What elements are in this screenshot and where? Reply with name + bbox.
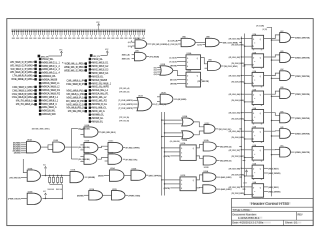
wire Q to U9A <box>201 58 208 64</box>
input pin MXC_WL8_C <box>39 103 57 106</box>
junction <box>241 56 242 57</box>
output pin WD_WL3_L_P_MX1 <box>11 68 37 71</box>
wire gate enable <box>272 77 280 79</box>
wire <box>98 158 108 160</box>
termination network RN25 <box>115 29 119 39</box>
termination network RN9 <box>46 29 50 39</box>
output pin WDE_WL_C_PD1 <box>64 69 87 72</box>
input pin MXD_WLC_L_4 <box>39 72 61 75</box>
and-gate U8B <box>202 36 219 47</box>
net label WL_WD_B <box>11 177 21 178</box>
svg-text:(L_CLK_B): (L_CLK_B) <box>168 44 178 46</box>
input pin WL_PU <box>90 54 93 57</box>
svg-text:(W_CLK_EN1): (W_CLK_EN1) <box>231 45 244 47</box>
svg-text:(4L): (4L) <box>244 182 247 184</box>
bus wire W_D <box>240 37 242 187</box>
wire <box>243 188 245 190</box>
svg-text:REV: REV <box>298 214 303 217</box>
termination network RN12 <box>59 29 63 39</box>
svg-text:(W_CLK_EN4): (W_CLK_EN4) <box>231 100 244 102</box>
termination network RN2 <box>16 29 20 39</box>
output pin CWL_WL8_R_P <box>66 83 87 86</box>
wire gate enable <box>272 59 280 61</box>
and-gate U21A <box>70 169 83 183</box>
net label (W_CLK_EN7) <box>233 155 244 156</box>
output pin RDE_WDE_P_MX1 <box>11 78 36 81</box>
net label W_ENB <box>178 99 186 100</box>
svg-text:(TP_WL_A): (TP_WL_A) <box>119 87 130 90</box>
svg-text:(U_B): (U_B) <box>263 29 268 31</box>
svg-text:(H05_DRVB): (H05_DRVB) <box>268 192 280 194</box>
svg-text:Sheet: 1/1: Sheet: 1/1 <box>285 221 298 225</box>
svg-text:U13B: U13B <box>182 140 187 142</box>
or-gate U12A <box>133 95 152 111</box>
svg-text:(Q1B): (Q1B) <box>197 45 202 47</box>
net label (CMD_DRV6B) <box>295 133 308 134</box>
net label P_WD_OFFB <box>126 147 139 148</box>
wire Q output <box>264 91 280 94</box>
junction <box>164 123 165 124</box>
resistor R41 <box>49 175 51 185</box>
termination network RN27 <box>124 29 128 39</box>
svg-text:(H04_DRVB): (H04_DRVB) <box>268 173 280 175</box>
wire clock input <box>245 119 253 121</box>
junction <box>241 146 242 147</box>
wire <box>162 147 180 149</box>
svg-text:(W_CLK_EN3): (W_CLK_EN3) <box>231 82 244 84</box>
wire feedback <box>23 159 27 173</box>
net label (W_CLK_EN6) <box>233 137 244 138</box>
output pin WD_WL3_C_P_MX2 <box>10 64 37 67</box>
output pin WD_WL3_R_P_MX1 <box>10 71 37 74</box>
svg-text:(S4): (S4) <box>154 74 158 76</box>
net label T_CLK <box>169 61 176 62</box>
junction <box>271 135 272 136</box>
termination network RN15 <box>72 29 76 39</box>
termination network RN5 <box>29 29 33 39</box>
wire <box>216 188 221 190</box>
flip-flop U2A <box>252 33 264 50</box>
input pin P2U2_GL <box>89 58 104 61</box>
input pin MXC_GL_WL8_1 <box>89 82 112 85</box>
wire <box>219 42 222 44</box>
net label 4L <box>244 182 248 183</box>
net label S1 <box>153 67 157 68</box>
net label RSTB <box>164 187 170 188</box>
wire <box>243 160 245 162</box>
svg-text:(W_CLK_G9): (W_CLK_G9) <box>229 187 241 189</box>
net label T_CLK_G <box>156 104 166 105</box>
svg-text:(W_WL_SEL_MX1): (W_WL_SEL_MX1) <box>32 129 50 131</box>
svg-text:(L3): (L3) <box>128 46 131 48</box>
svg-text:(H04_BLK): (H04_BLK) <box>268 168 279 170</box>
wire <box>194 122 204 127</box>
input pin MXCA_WL_L1 <box>89 89 109 92</box>
output pin LTH_WLR_P_MX1 <box>12 75 36 78</box>
junction <box>164 151 165 152</box>
svg-text:(CMD_DRV7B): (CMD_DRV7B) <box>295 152 310 154</box>
net label U_B <box>263 29 268 30</box>
svg-text:(ND8B): (ND8B) <box>77 195 84 197</box>
output pin MXC_WL8_C_1 <box>66 103 87 106</box>
flip-flop U6A <box>252 181 264 198</box>
wire <box>291 57 295 59</box>
wire <box>162 179 180 181</box>
input pin MXL_W8_GL <box>89 107 108 110</box>
input pin MXCW_8_GL <box>89 103 108 106</box>
net label L_CLK_B <box>168 44 178 45</box>
svg-text:(S3): (S3) <box>154 72 158 74</box>
net label BCN2B <box>13 146 20 147</box>
svg-text:(H01_DRV): (H01_DRV) <box>221 177 232 179</box>
junction <box>244 120 245 121</box>
svg-text:(W_CLK_G1): (W_CLK_G1) <box>229 39 241 41</box>
net label T_CLK_GRP3 <box>119 107 133 108</box>
and-gate U2C <box>280 31 291 43</box>
net label H05_DRVB <box>268 191 279 192</box>
title text Sheet <box>285 222 301 224</box>
junction <box>241 75 242 76</box>
svg-text:(WLEB): (WLEB) <box>14 153 21 155</box>
svg-text:(MXC_A): (MXC_A) <box>122 54 130 57</box>
output pin MX_WL8_L_PD <box>66 93 87 96</box>
and-gate U12B <box>157 92 173 104</box>
svg-text:(W_DRV_A): (W_DRV_A) <box>220 146 232 149</box>
or-gate U11B <box>157 64 173 76</box>
net label (CMD_DRV4B) <box>295 93 308 94</box>
input pin MXCA_WL8_L1 <box>39 82 60 85</box>
net label BCN8B <box>13 142 20 143</box>
power flag symbol <box>245 170 247 176</box>
input pin MXC_WL3_G4 <box>89 72 109 75</box>
net label (W_CLK_G2) <box>230 57 240 58</box>
title text Date <box>232 222 271 224</box>
svg-text:(CMD_DRV2B): (CMD_DRV2B) <box>295 58 310 60</box>
value label R44 10K <box>48 189 54 190</box>
input pin MXC_WL_L2 <box>89 96 107 99</box>
output pin MX_WL8_PD_2 <box>66 107 87 110</box>
vcc symbol <box>60 51 61 53</box>
wire gate enable <box>272 95 280 97</box>
wire D input <box>177 57 186 59</box>
svg-text:(ND8B): (ND8B) <box>88 177 95 179</box>
termination network RN14 <box>68 29 72 39</box>
net label (W_CLK_G1) <box>230 38 240 39</box>
svg-text:(WL_WD_BLK): (WL_WD_BLK) <box>102 132 117 134</box>
svg-text:(TP_GL_A): (TP_GL_A) <box>119 116 129 119</box>
wire <box>152 103 155 105</box>
wire D input <box>241 167 252 169</box>
svg-text:(WL_WD_B): (WL_WD_B) <box>9 177 21 179</box>
wire <box>41 146 49 148</box>
net label WL_CLK_ENB <box>223 42 237 43</box>
output pin MX_TX_WL8_2 <box>16 103 37 106</box>
output pin MXC_WL8_P_1 <box>66 96 87 99</box>
junction <box>45 198 46 199</box>
termination network RN3 <box>20 29 24 39</box>
and-gate U15D <box>80 152 97 164</box>
input pin MXC_WL8_L2 <box>39 99 59 102</box>
wire gate enable <box>272 135 280 137</box>
wire <box>174 98 177 100</box>
termination network RN31 <box>141 29 145 39</box>
net label PWR_OKB <box>128 195 138 196</box>
svg-text:(T_CLK): (T_CLK) <box>169 62 177 64</box>
termination network RN10 <box>50 29 54 39</box>
wire <box>165 183 181 185</box>
output pin MX_TX_WL8_1 <box>16 100 37 103</box>
termination network RN20 <box>94 29 98 39</box>
junction <box>241 38 242 39</box>
input pin MXC3_GL <box>89 75 104 78</box>
wire Q output <box>264 167 268 169</box>
input pin MXD_WLC_L_2 <box>39 65 61 68</box>
input pin MXDA_WLB8 <box>39 79 58 82</box>
net label ND8 <box>98 175 103 176</box>
flip-flop U3A <box>252 70 264 87</box>
svg-text:(W_CLK_G5): (W_CLK_G5) <box>229 113 241 115</box>
output pin CWL_WL8_L_MX2 <box>12 89 37 92</box>
termination network RN6 <box>33 29 37 39</box>
termination network RN4 <box>24 29 28 39</box>
net label H02_DRV <box>221 189 231 190</box>
output pin CWL_WL8_L_P <box>66 79 87 82</box>
input pin MXW8_GL <box>89 114 105 117</box>
wire clock input <box>245 101 253 103</box>
wire <box>146 174 149 176</box>
flip-flop U17A <box>170 141 196 161</box>
net label (W_CLK_G4) <box>230 94 240 95</box>
net label TP_C <box>119 117 129 118</box>
wire <box>196 145 203 148</box>
svg-text:(W_CLK_G3): (W_CLK_G3) <box>229 76 241 78</box>
wire <box>71 158 78 160</box>
wire <box>196 156 203 158</box>
svg-text:(L_CLK_A): (L_CLK_A) <box>168 40 178 43</box>
termination network RN22 <box>102 29 106 39</box>
output pin MXC_WL8_PL1 <box>66 90 87 93</box>
input pin MXCA_WLB8 <box>89 79 108 82</box>
wire D input <box>241 130 252 132</box>
and-gate U20A <box>110 167 125 181</box>
and-gate U3C <box>280 69 291 81</box>
junction <box>244 138 245 139</box>
and-gate U7B <box>132 50 146 61</box>
net label S4 <box>153 74 157 75</box>
svg-text:(CMD_DRV4B): (CMD_DRV4B) <box>295 94 310 96</box>
or-gate U13B <box>182 131 194 142</box>
wire <box>170 187 180 189</box>
and-gate U18B <box>203 156 216 169</box>
wire <box>291 132 295 134</box>
wire <box>147 43 152 45</box>
net label H04_BLK <box>268 168 278 169</box>
net label H04_DRVB <box>268 173 279 174</box>
and-gate U2D <box>280 51 291 63</box>
net label MXC_B <box>122 58 129 59</box>
net label (W_CLK_EN5) <box>233 118 244 119</box>
title text Title: HT80x <box>232 209 252 211</box>
wire <box>216 146 219 148</box>
and-gate U5C <box>280 145 291 157</box>
svg-text:(W_CLK_G2): (W_CLK_G2) <box>229 57 241 59</box>
svg-text:(L2): (L2) <box>128 42 131 44</box>
and-gate U4D <box>280 127 291 139</box>
input pin MXD_WLC_L_3 <box>39 68 61 71</box>
svg-text:(W_CLK_EN6): (W_CLK_EN6) <box>231 137 244 139</box>
wire Q output <box>264 35 280 39</box>
net label (W_CLK_EN2) <box>233 63 244 64</box>
svg-text:(T_CLK_GRP2): (T_CLK_GRP2) <box>118 104 133 106</box>
svg-text:(CMD_DRV6B): (CMD_DRV6B) <box>295 134 310 136</box>
and-gate U8A <box>178 36 195 47</box>
junction <box>161 119 162 120</box>
wire <box>291 37 295 39</box>
svg-text:(S2): (S2) <box>154 70 158 72</box>
termination network RN24 <box>111 29 115 39</box>
test point mark <box>62 62 63 63</box>
net label (W_CLK_G9) <box>230 187 240 188</box>
net label TP_B <box>119 91 129 92</box>
input pin MXL_WL8_A <box>39 106 57 109</box>
svg-text:(TP_GL_B): (TP_GL_B) <box>119 120 129 122</box>
junction <box>244 160 245 161</box>
svg-text:(MXC_B): (MXC_B) <box>122 58 130 60</box>
net label TP_A <box>119 88 129 89</box>
junction <box>241 176 242 177</box>
junction <box>164 183 165 184</box>
net label T_CLK_GRP2 <box>119 104 133 105</box>
svg-text:MXL8_GL: MXL8_GL <box>92 121 103 124</box>
input pin MXCA_WL_R1 <box>89 93 109 96</box>
resistor R44 <box>61 175 63 185</box>
flip-flop U5A <box>252 144 264 161</box>
and-gate U14B <box>53 140 65 152</box>
wire <box>49 55 62 57</box>
wire <box>291 75 295 77</box>
wire <box>162 136 182 138</box>
junction <box>45 175 46 176</box>
resistor R42 <box>52 175 54 185</box>
wire <box>98 146 108 147</box>
wire <box>239 176 241 178</box>
svg-text:(2L_SEL2B): (2L_SEL2B) <box>170 141 180 143</box>
and-gate U7A <box>132 37 147 48</box>
junction <box>241 131 242 132</box>
svg-text:(PWR_ON_R): (PWR_ON_R) <box>8 198 21 200</box>
wire <box>103 194 112 196</box>
wire <box>123 158 125 160</box>
svg-text:(P_WD_OFFB): (P_WD_OFFB) <box>126 148 140 150</box>
and-gate U15C <box>105 140 123 152</box>
svg-text:CWL_WL8_R_P: CWL_WL8_R_P <box>66 83 84 86</box>
net label P1_WL_DIS3B <box>152 44 167 45</box>
wire <box>239 146 241 148</box>
svg-text:(P1_WL_DIS3B): (P1_WL_DIS3B) <box>152 44 168 46</box>
output pin WD_WL3_C_P_MX1 <box>10 61 37 64</box>
output pin CWL_WL8_R_MX1 <box>12 93 37 96</box>
net label Q1B <box>197 44 202 45</box>
svg-text:MX_WL_PD_3: MX_WL_PD_3 <box>68 110 84 113</box>
termination network RN11 <box>55 29 59 39</box>
wire <box>216 160 219 162</box>
wire <box>98 131 101 133</box>
wire <box>85 176 88 178</box>
svg-text:U18B: U18B <box>204 167 209 169</box>
net label S3 <box>153 72 157 73</box>
input pin MXCA_WL8_R2 <box>39 92 61 95</box>
wire <box>65 146 72 148</box>
wire clock input <box>245 45 253 47</box>
input pin MXCL8_WL <box>39 110 56 113</box>
wire <box>194 131 204 135</box>
and-gate U18A <box>203 139 216 151</box>
wire select fanout <box>70 129 72 160</box>
vcc symbol <box>106 51 107 53</box>
input pin MXC_L8_G <box>89 110 105 113</box>
junction <box>241 128 242 129</box>
vcc symbol <box>43 191 47 198</box>
output pin WDE_WL_L_PD1 <box>64 62 87 65</box>
input pin MXCA_WL8_L2 <box>39 85 60 88</box>
net label L2 <box>127 42 131 43</box>
junction <box>241 42 242 43</box>
net label W_WL_SEL_MX1 <box>32 128 48 129</box>
net label BCN1B <box>13 148 20 149</box>
wire <box>104 175 110 177</box>
input pin MXDC4_WL <box>39 75 57 78</box>
title block <box>232 198 314 225</box>
net label WL_WD_BLK <box>102 132 115 133</box>
wire <box>48 147 53 149</box>
wire <box>71 146 78 148</box>
svg-text:(W_CLK_G8): (W_CLK_G8) <box>229 168 241 170</box>
net label (W_CLK_EN4) <box>233 100 244 101</box>
junction <box>244 175 245 176</box>
junction <box>164 132 165 133</box>
wire clock input <box>245 138 253 140</box>
and-gate U19A <box>203 170 216 181</box>
svg-text:(W_CLK_G7): (W_CLK_G7) <box>229 150 241 152</box>
flip-flop U17B <box>180 175 196 191</box>
net label (W_CLK_EN3) <box>233 81 244 82</box>
input pin MXCL8_WD <box>39 113 56 116</box>
and-gate U16A <box>21 167 40 181</box>
junction <box>271 78 272 79</box>
wire D input <box>241 186 252 188</box>
wire Q output <box>264 149 280 151</box>
termination network RN28 <box>128 29 132 39</box>
wire set input <box>177 65 186 67</box>
net label 2L_SEL1B <box>78 128 89 129</box>
svg-text:RDE_WDE_P_MX1: RDE_WDE_P_MX1 <box>11 78 33 81</box>
wire gate enable <box>272 154 280 156</box>
wire <box>101 54 108 56</box>
svg-text:(W_CLK_EN8): (W_CLK_EN8) <box>231 174 244 176</box>
termination network RN26 <box>120 29 124 39</box>
net label W_DRV_A <box>220 146 230 147</box>
and-gate U15A <box>80 124 98 137</box>
wire D input <box>241 149 252 151</box>
svg-text:(RSTB): (RSTB) <box>164 156 171 158</box>
wire <box>243 65 245 67</box>
junction <box>62 198 63 199</box>
svg-text:(H02_DRV): (H02_DRV) <box>221 189 232 191</box>
net label P1_WLB <box>150 56 159 57</box>
net label (W_CLK_G5) <box>230 112 240 113</box>
svg-text:Header Control HT80: Header Control HT80 <box>251 201 290 206</box>
junction <box>244 157 245 158</box>
